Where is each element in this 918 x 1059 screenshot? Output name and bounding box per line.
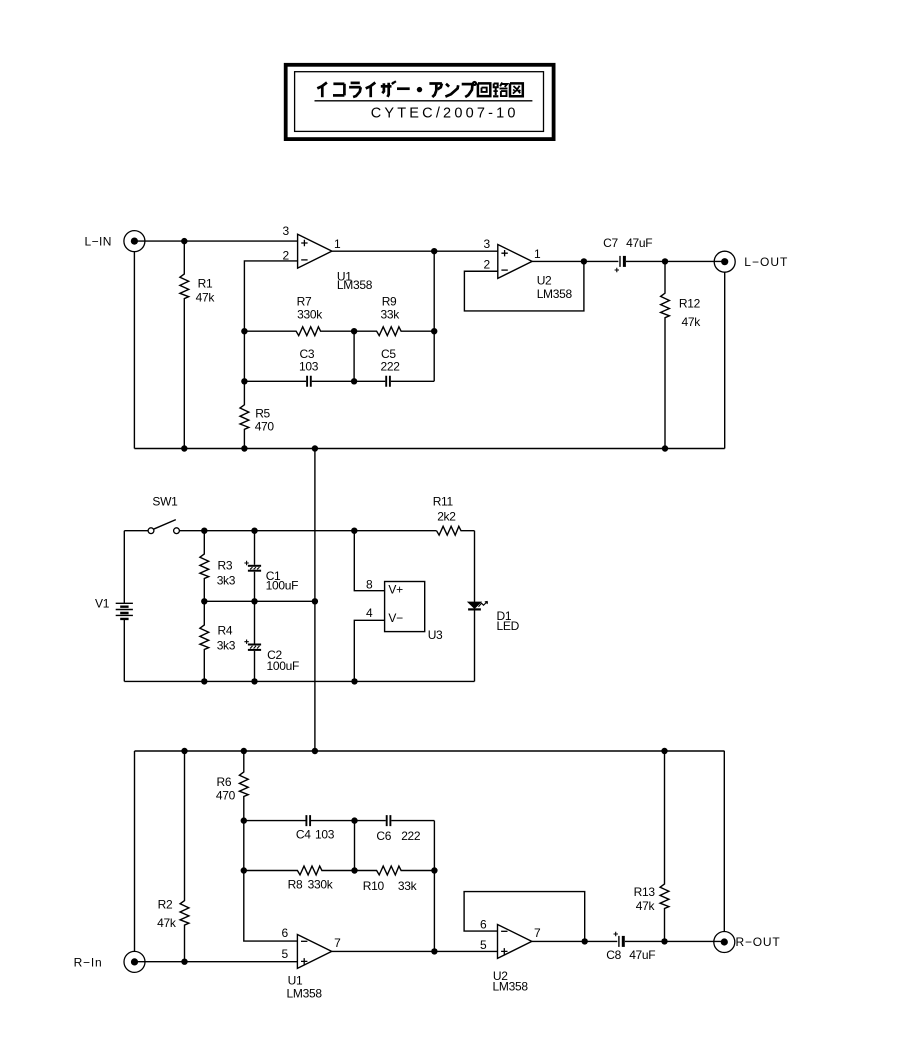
label R3	[218, 558, 233, 572]
wire L-IN to U1 pin3	[134, 240, 297, 242]
node R-In/R2	[181, 959, 187, 965]
label D1	[497, 609, 512, 623]
wire LED down	[474, 611, 476, 682]
wire R11 to LED	[474, 531, 476, 602]
label C6	[376, 829, 391, 843]
label U1 pin 3	[283, 224, 290, 238]
svg-text:R1: R1	[198, 276, 213, 290]
svg-text:222: 222	[381, 360, 401, 374]
svg-text:U3: U3	[428, 628, 443, 642]
svg-text:CYTEC/2007-10: CYTEC/2007-10	[371, 106, 519, 122]
svg-text:R10: R10	[363, 879, 385, 893]
svg-text:R−In: R−In	[74, 956, 103, 970]
capacitor C4	[306, 815, 310, 826]
svg-text:R2: R2	[158, 897, 173, 911]
resistor R10	[355, 866, 435, 875]
svg-text:47k: 47k	[682, 315, 702, 329]
label U2 LM358	[537, 287, 573, 301]
node vg R3	[201, 598, 207, 604]
node junction L-IN/R1	[181, 238, 187, 244]
label R6 value 470	[216, 789, 236, 803]
label U2 pin 1	[534, 247, 541, 261]
wire mid vertical R7-C3	[353, 331, 355, 381]
wire right vertical to C5	[433, 251, 435, 381]
svg-text:V1: V1	[95, 597, 110, 611]
svg-text:LED: LED	[497, 619, 520, 633]
label R6	[217, 775, 232, 789]
label R10 value 33k	[398, 879, 418, 893]
svg-text:33k: 33k	[398, 879, 418, 893]
svg-text:47uF: 47uF	[629, 948, 655, 962]
wire U2b feedback loop	[464, 892, 585, 942]
svg-text:R6: R6	[217, 775, 232, 789]
label R12	[679, 297, 701, 311]
svg-text:R−OUT: R−OUT	[736, 935, 781, 949]
connector L-OUT	[714, 251, 735, 272]
svg-text:33k: 33k	[381, 307, 401, 321]
label R1 value 47k	[196, 291, 216, 305]
svg-text:V+: V+	[388, 582, 403, 596]
svg-text:1: 1	[534, 247, 541, 261]
label U1b pin 5	[282, 947, 289, 961]
label R4 value 3k3	[217, 639, 236, 653]
wire mid vertical C4-R8	[354, 821, 356, 871]
wire R-In row	[135, 961, 298, 963]
svg-text:C4: C4	[296, 828, 311, 842]
svg-text:R12: R12	[679, 297, 701, 311]
resistor R5	[240, 381, 249, 448]
node R9 right	[431, 328, 437, 334]
node vg C1	[251, 598, 257, 604]
label U1 pin 2	[283, 249, 290, 263]
op-amp U1 (L)	[298, 234, 332, 268]
wire left fb vertical	[244, 821, 298, 941]
svg-text:R13: R13	[634, 885, 656, 899]
svg-text:SW1: SW1	[152, 495, 178, 509]
op-amp U2 (L)	[498, 244, 532, 278]
wire C6 row	[355, 820, 435, 822]
svg-text:C7: C7	[603, 236, 618, 250]
svg-text:470: 470	[255, 419, 275, 433]
label C6 value 222	[401, 829, 421, 843]
LED D1	[468, 601, 487, 609]
label C3	[300, 347, 315, 361]
label R7	[297, 295, 312, 309]
wire L ground rail	[134, 448, 724, 450]
wire U1b out	[332, 950, 498, 952]
label D1 LED	[497, 619, 520, 633]
svg-text:470: 470	[216, 789, 236, 803]
label R9 value 33k	[381, 307, 401, 321]
resistor R3	[200, 531, 209, 602]
node rail C1 top	[251, 528, 257, 534]
svg-text:4: 4	[366, 606, 373, 620]
resistor R4	[200, 601, 209, 681]
svg-text:R3: R3	[218, 558, 233, 572]
wire U3 pin4	[354, 620, 384, 681]
node rail R1	[181, 445, 187, 451]
svg-text:C6: C6	[376, 829, 391, 843]
node R7/R9 junction	[351, 328, 357, 334]
label R13	[634, 885, 656, 899]
node rail center	[312, 445, 318, 451]
wire C3 row	[244, 380, 354, 382]
node C4 left	[241, 817, 247, 823]
wire center ground link	[314, 449, 316, 752]
capacitor C3	[307, 376, 311, 387]
wire U2 feedback loop	[464, 261, 584, 311]
svg-text:C8: C8	[606, 948, 621, 962]
label R2	[158, 897, 173, 911]
svg-text:5: 5	[282, 947, 289, 961]
node C4/C6 junction	[351, 817, 357, 823]
label R11	[433, 495, 454, 509]
node C3/C5 junction	[351, 378, 357, 384]
svg-text:U2: U2	[537, 273, 552, 287]
label SW1	[152, 495, 178, 509]
wire R-OUT up	[723, 751, 725, 932]
node R8/R10 junction	[351, 867, 357, 873]
wire feedback left vertical	[243, 331, 245, 381]
capacitor C1 100uF	[244, 531, 261, 602]
connector R-In	[124, 951, 145, 972]
wire U2 output row	[532, 260, 725, 262]
label R5	[255, 407, 270, 421]
label U2b pin 5	[480, 938, 487, 952]
label U1b pin 6	[282, 926, 289, 940]
label C2	[267, 648, 282, 662]
svg-text:2k2: 2k2	[437, 510, 456, 524]
switch SW1	[148, 520, 179, 534]
label R11 value 2k2	[437, 510, 456, 524]
label U2 LM358 (R)	[493, 979, 529, 993]
resistor R11	[437, 526, 475, 535]
resistor R9	[354, 327, 434, 336]
svg-text:5: 5	[480, 938, 487, 952]
capacitor C6	[387, 815, 391, 826]
svg-text:47k: 47k	[636, 899, 656, 913]
label U1 LM358	[337, 278, 373, 292]
wire C5 row	[354, 380, 434, 382]
resistor R12	[661, 261, 670, 448]
label U1b pin 7	[334, 936, 341, 950]
svg-text:3: 3	[484, 237, 491, 251]
capacitor C7 47uF	[615, 256, 625, 272]
wire power bottom rail	[124, 680, 474, 682]
capacitor C2 100uF	[244, 601, 261, 681]
svg-text:V−: V−	[388, 611, 403, 625]
svg-text:8: 8	[366, 577, 373, 591]
svg-text:LM358: LM358	[537, 287, 573, 301]
label C5 value 222	[381, 360, 401, 374]
node R10 right	[431, 867, 437, 873]
svg-text:R4: R4	[218, 624, 233, 638]
label R4	[218, 624, 233, 638]
label U1 LM358 (R)	[287, 987, 323, 1001]
svg-text:100uF: 100uF	[266, 579, 299, 593]
label U3 pin 8	[366, 577, 373, 591]
resistor R7	[244, 327, 354, 336]
capacitor C5	[386, 376, 390, 387]
svg-text:100uF: 100uF	[267, 659, 300, 673]
wire L-OUT down	[724, 272, 726, 448]
title underline	[315, 100, 533, 102]
label U2b pin 6	[480, 918, 487, 932]
label R3 value 3k3	[217, 573, 236, 587]
wire battery to switch	[124, 530, 148, 532]
op-amp U2 (R)	[498, 924, 532, 958]
label U1 (R)	[288, 973, 303, 987]
svg-text:LM358: LM358	[287, 987, 323, 1001]
label V1	[95, 597, 110, 611]
node R7/C3 left	[241, 328, 247, 334]
node pb R4	[201, 678, 207, 684]
label R8	[288, 878, 303, 892]
label R2 value 47k	[157, 916, 177, 930]
wire U1 pin2 feedback	[244, 261, 297, 331]
node rail U3 top	[351, 528, 357, 534]
svg-text:6: 6	[480, 918, 487, 932]
node R8 left	[241, 867, 247, 873]
node vg center	[312, 598, 318, 604]
op-amp U1 (R)	[297, 934, 331, 968]
wire U3 pin8	[354, 531, 384, 591]
svg-text:6: 6	[282, 926, 289, 940]
label U2 (R)	[493, 969, 508, 983]
node C3 left	[241, 378, 247, 384]
label R13 value 47k	[636, 899, 656, 913]
node rr R6	[241, 748, 247, 754]
node rr R13	[661, 748, 667, 754]
svg-text:1: 1	[334, 237, 341, 251]
label R-OUT	[736, 935, 781, 949]
wire L-IN connector down	[133, 252, 135, 449]
svg-text:3k3: 3k3	[217, 573, 236, 587]
label L-OUT	[744, 255, 788, 269]
label R7 value 330k	[297, 307, 323, 321]
svg-text:47k: 47k	[196, 291, 216, 305]
subtitle CYTEC/2007-10	[371, 106, 519, 122]
label R9	[382, 295, 397, 309]
node rr center	[312, 748, 318, 754]
label C4	[296, 828, 311, 842]
svg-text:2: 2	[484, 258, 491, 272]
wire R-In vertical	[134, 751, 136, 951]
label C3 value 103	[299, 360, 319, 374]
resistor R6	[239, 751, 248, 821]
node C8/R13 junction	[661, 938, 667, 944]
wire C4 row	[244, 820, 355, 822]
wire U1 output to U2	[332, 250, 498, 252]
label C7 value 47uF	[626, 236, 652, 250]
svg-text:L−IN: L−IN	[85, 235, 112, 249]
svg-text:47k: 47k	[157, 916, 177, 930]
label U2	[537, 273, 552, 287]
L-IN label	[85, 235, 112, 249]
svg-text:222: 222	[401, 829, 421, 843]
wire right fb vertical	[433, 821, 435, 952]
svg-text:7: 7	[334, 936, 341, 950]
svg-text:L−OUT: L−OUT	[744, 255, 788, 269]
label C8 value 47uF	[629, 948, 655, 962]
node U1 out junction	[431, 248, 437, 254]
label U1 pin 1	[334, 237, 341, 251]
node C7/R12 junction	[662, 258, 668, 264]
capacitor C8 47uF	[614, 932, 624, 947]
label R12 value 47k	[682, 315, 702, 329]
wire R rail top	[135, 750, 725, 752]
node U1b out junction	[431, 948, 437, 954]
svg-text:103: 103	[315, 828, 335, 842]
label U2b pin 7	[534, 926, 541, 940]
svg-text:R8: R8	[288, 878, 303, 892]
label U3 V+	[388, 582, 403, 596]
label U3 V-	[388, 611, 403, 625]
svg-text:R11: R11	[433, 495, 454, 509]
node pb U3	[351, 678, 357, 684]
wire virtual ground rail	[204, 600, 315, 602]
node U2 out/feedback	[581, 258, 587, 264]
label U2 pin 3	[484, 237, 491, 251]
node rail R3 top	[201, 528, 207, 534]
label C5	[381, 347, 396, 361]
svg-text:LM358: LM358	[337, 278, 373, 292]
resistor R2	[180, 751, 189, 962]
title text イコライザー・アンプ回路図 (drawn glyphs)	[317, 81, 523, 97]
title block outer border	[286, 65, 554, 139]
resistor R8	[244, 866, 355, 875]
svg-text:330k: 330k	[308, 878, 334, 892]
resistor R13	[660, 751, 669, 941]
svg-text:330k: 330k	[297, 307, 323, 321]
node rail R5	[241, 445, 247, 451]
label C7	[603, 236, 618, 250]
op-amp power U3 box	[385, 582, 425, 632]
node rail R12	[662, 445, 668, 451]
svg-text:7: 7	[534, 926, 541, 940]
node U2b out/feedback	[582, 938, 588, 944]
label R1	[198, 276, 213, 290]
label C1	[266, 569, 281, 583]
label R5 value 470	[255, 419, 275, 433]
battery V1	[116, 531, 133, 682]
label R8 value 330k	[308, 878, 334, 892]
label R10	[363, 879, 385, 893]
connector L-IN	[124, 231, 145, 252]
label C4 value 103	[315, 828, 335, 842]
resistor R1	[180, 241, 189, 448]
label U3	[428, 628, 443, 642]
svg-text:U1: U1	[288, 973, 303, 987]
label U2 pin 2	[484, 258, 491, 272]
wire switch to R11	[179, 530, 436, 532]
label C2 value 100uF	[267, 659, 300, 673]
svg-text:47uF: 47uF	[626, 236, 652, 250]
title block inner border	[295, 72, 544, 132]
svg-text:3k3: 3k3	[217, 639, 236, 653]
node pb C2	[251, 678, 257, 684]
wire U2b output row	[532, 940, 725, 942]
svg-text:103: 103	[299, 360, 319, 374]
label U1	[337, 269, 352, 283]
label U3 pin 4	[366, 606, 373, 620]
connector R-OUT	[714, 932, 735, 953]
svg-text:3: 3	[283, 224, 290, 238]
node rr R2	[181, 748, 187, 754]
label R-In	[74, 956, 103, 970]
label C1 value 100uF	[266, 579, 299, 593]
svg-text:LM358: LM358	[493, 979, 529, 993]
label C8	[606, 948, 621, 962]
